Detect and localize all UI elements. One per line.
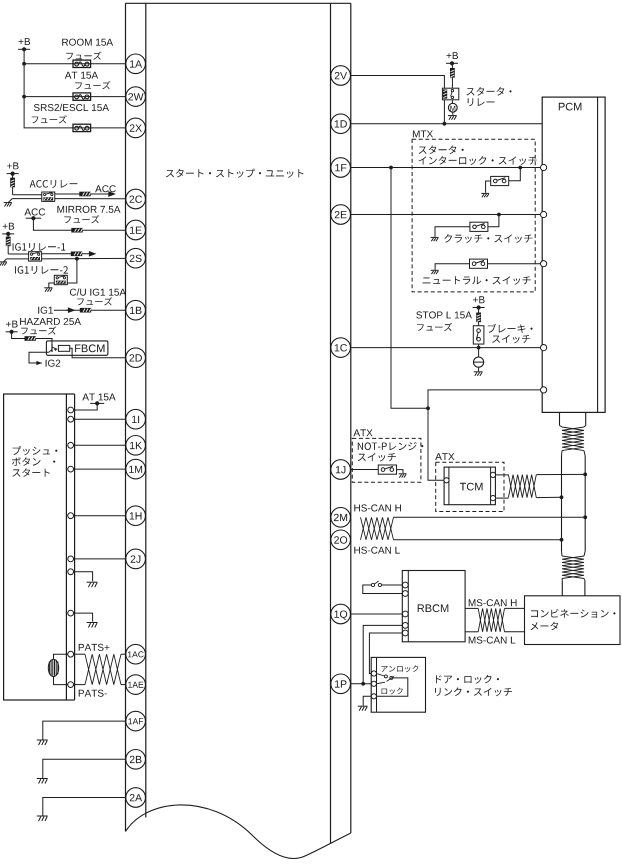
wire brake sw to 1C line [478,344,480,348]
pin 2V [331,66,351,86]
twisted pair HS-CAN [361,517,394,540]
ground (pbs 2) [87,622,98,624]
label starter relay [467,87,512,96]
wire lock loop [377,678,408,696]
label PCM [559,103,582,111]
switch brake (vertical) [473,326,484,344]
module push-button start box [4,394,67,700]
wire pbs ground 1 [74,572,93,582]
ground (clutch) [431,236,439,238]
fuse MIRROR 7.5A [71,228,82,233]
fuse HAZARD 25A [25,336,36,341]
module PCM box [542,97,605,412]
ground connector G [478,348,480,357]
module FBCM box [46,341,108,355]
label MS-CAN L [469,637,516,644]
label lock [382,688,403,695]
PCM pin [541,211,547,217]
wire 1F column to ATX junction [391,168,428,409]
wire AT15A to pin [74,403,98,410]
ground (1AF) [37,739,48,741]
twisted pair TCM CAN [496,474,509,476]
junction (1D/starter) [443,122,447,126]
source ACC [24,208,45,215]
pin 1Q [331,604,351,624]
pin 1C [331,338,351,358]
arrow (IG1) [66,308,74,312]
junction CAN H (TCM) [583,473,587,477]
label RBCM [418,604,449,612]
label start-stop unit [166,169,304,178]
ground (brake) [478,367,480,371]
label push-button start [13,446,58,455]
pin 1B [126,300,146,320]
junction (2E/clutch) [497,213,501,217]
wire 2A to ground [43,798,126,817]
wire pbs to 1M [74,468,126,470]
source AT 15A (to push start) [82,394,115,401]
wire pbs to 1K [74,444,126,446]
ground (door switch) [358,705,368,707]
wire TCM CAN H to bus [536,473,585,475]
wire 1J to switch [350,469,378,471]
resistor (FBCM) [58,345,69,351]
pbs pin (gnd2) [68,610,74,616]
wire pbs to 2J [74,558,126,560]
wire neutral to ground [435,264,469,270]
label combination meter [531,609,616,618]
label ACC (output) [95,185,116,192]
pin 2O [331,530,351,550]
fuse ROOM 15A [73,60,91,67]
label FBCM [75,344,104,352]
twisted pair (PCM to bus) [560,425,586,427]
module RBCM box [402,571,465,642]
pin 2A [126,788,146,808]
pin 2M [331,508,351,528]
junction (brake/1C) [477,346,481,350]
label clutch switch [444,234,532,243]
label AT 15A [65,72,98,79]
pin 1P [331,674,351,694]
wire pbs ground 2 [74,613,93,622]
wire FBCM to IG2 [29,352,49,363]
label SRS2/ESCL 15A [34,104,109,111]
meter connector stub [562,580,585,596]
ATX group (dashed, TCM) [436,462,504,511]
wire relay1 to 2S [42,257,126,260]
RBCM pin [402,611,408,617]
label NOT-P range switch [358,442,424,450]
junction (1F/ATX column) [389,166,393,170]
pbs pin (PATS+) [68,651,74,657]
pbs pin (1K) [68,442,74,448]
label IG1 relay-1 [13,243,66,251]
CAN bus channel [561,456,563,551]
wire door sw to ground [363,696,371,705]
power +B (ACC relay) [7,162,19,169]
transistor (FBCM) [51,343,53,352]
fuse on relay1 output [71,252,82,257]
PCM pin [541,387,547,393]
start-stop unit band (connector strip) [126,2,351,4]
junction HS-CAN H [583,515,587,519]
ATX group (dashed, NOT-P) [352,438,421,482]
label neutral switch [423,276,531,285]
label brake switch [488,324,533,333]
wire relay1 output (arrow) [42,253,90,255]
ground (2B) [37,778,48,780]
label HS-CAN H [354,504,401,511]
wire 1C to PCM [350,347,540,349]
pin 2J [126,549,146,569]
module door-lock-link switch box [371,657,425,712]
wire to 2W [24,96,126,98]
power +B (HAZARD) [6,321,18,328]
label MS-CAN H [469,599,517,606]
pbs pin (PATS-) [68,682,74,688]
module TCM box [444,467,495,505]
pin 1F [331,158,351,178]
wire +B to FBCM [12,332,52,344]
wire relay to ground [12,198,42,200]
TCM pin (CAN H) [490,472,495,477]
power +B (stop lamp) [473,296,485,303]
fuse (vertical) starter [451,63,453,68]
ground (neutral) [431,269,439,271]
pin 2S [126,248,146,268]
wire interlock to ground [486,181,491,193]
wire relay2 to ground [49,283,55,288]
wire ACC to 1E [33,218,125,230]
power +B (starter relay) [447,52,459,59]
pin 1AF [126,711,146,731]
immobilizer antenna coil [54,654,68,659]
wire 2B to ground [43,759,126,778]
switch (RBCM loop) [382,584,403,586]
band bottom break curve [126,805,351,859]
ground (ACC relay) [8,199,12,203]
junction (ATX column) [426,406,430,410]
switch NOT-P range [378,465,396,474]
door sw pin (unlock) [371,671,376,676]
label IG2 [46,360,61,367]
ground (interlock) [481,192,489,194]
label TCM [460,483,483,491]
RBCM pin [402,591,408,597]
arrow IG2 [36,361,42,365]
ground (starter) [452,112,454,115]
label MIRROR 7.5A [57,206,120,213]
wire HS-CAN L to bus [394,539,562,541]
wire 2V to starter relay coil [350,76,444,89]
pin 1J [331,460,351,480]
wire to 1A [24,63,126,65]
source IG1 [38,307,53,314]
wire RBCM to 1P junction [363,625,402,683]
PCM pin [541,164,547,170]
pin 1D [331,114,351,134]
junction CAN L (TCM) [560,495,564,499]
switch starter interlock [491,176,509,185]
pin 2D [126,348,146,368]
TCM pin (in) [444,478,449,483]
door switch contacts [377,674,385,677]
RBCM pin [402,623,408,629]
arrow (IG1 relay-1 out) [89,252,95,256]
fuse STOP L 15A (vertical) [478,308,480,313]
label STOP L 15A fuse [416,311,472,318]
PCM CAN connector stub [560,412,586,425]
switch neutral [470,259,488,268]
label starter interlock switch [419,146,464,155]
relay IG1-2 [54,275,67,284]
twisted pair PATS [74,653,85,655]
label IG1 relay-2 [15,266,68,274]
pin 1H [126,506,146,526]
wire neutral switch to PCM [488,263,541,265]
RBCM pin [402,630,408,636]
ground (2A) [37,815,48,817]
fuse on ACC output [79,192,90,197]
wire junction to PCM pin [428,390,541,408]
wire +B branch vertical [24,49,73,128]
wire pbs to 1H [74,515,126,517]
twisted pair (bus to meter) [562,551,586,556]
junction (1P/RBCM) [361,682,365,686]
wire 1Q to RBCM [350,613,402,615]
relay IG1-1 [29,252,42,261]
door sw pin (lock) [371,694,376,699]
fuse (vertical) on +B [7,234,9,237]
label ATX (TCM) [435,453,454,460]
ground (IG1 relay-1) [7,258,29,260]
label PATS+ [79,644,110,651]
label ATX [353,429,372,436]
fuse SRS2/ESCL 15A [73,124,91,131]
label unlock [381,665,418,672]
fuse (vertical) on +B feed [12,174,14,178]
pbs pin (2J) [68,556,74,562]
wire +B to relay coil [13,194,43,196]
junction at 2W branch [22,95,26,99]
wire 2E to PCM [350,214,540,216]
wire coil to 1D line [443,100,445,124]
pin 1AC [126,644,146,664]
pin 1I [126,409,146,429]
pin 2X [126,118,146,138]
label HS-CAN L [354,547,400,554]
wire relay2 to junction [67,259,77,283]
pin 2B [126,750,146,770]
junction at 1A branch [22,62,26,66]
pin 1E [126,220,146,240]
module combination meter box [525,596,621,645]
wire HS-CAN H to bus [394,516,586,518]
label ACC relay [30,180,78,188]
wire 1P to door switch [350,683,371,685]
wire 1D to PCM [350,123,542,125]
arrow ACC [104,192,114,196]
TCM pin (CAN L) [490,496,495,501]
power +B (top left) [19,38,31,45]
fuse AT 15A [73,93,91,100]
relay ACC [42,192,55,201]
wire to clutch switch [488,215,499,227]
RBCM pin [402,582,408,588]
label C/U IG1 15A fuse [70,288,126,295]
junction (1F/interlock) [518,166,522,170]
wire IG1 to 1B [54,309,126,311]
junction HS-CAN L [560,538,564,542]
ground (pbs 1) [87,581,98,583]
fuse C/U IG1 15A [80,308,91,313]
pbs pin (1M) [68,466,74,472]
ground (NOT-P) [399,473,407,475]
wire pbs to 1I [74,418,126,420]
label HAZARD 25A fuse [20,318,81,325]
MTX group (dashed) [412,139,535,292]
pbs pin (1I) [68,416,74,422]
pin 1A [126,54,146,74]
wire FBCM to 2D [70,348,126,357]
wire clutch to ground [435,227,470,237]
wire to 2X [73,127,126,129]
wire 1AF to ground [43,721,126,740]
wire +B to relay1 [8,253,28,255]
wire to interlock switch [509,168,521,181]
junction 2S/relay2 [75,257,79,261]
pin 2W [126,87,146,107]
ground (IG1 relay-2) [44,287,52,289]
pin 1M [126,459,146,479]
twisted pair MS-CAN [465,607,478,609]
pbs pin (AT15A) [68,407,74,413]
wire relay to 2C [55,198,126,200]
PCM pin [541,261,547,267]
relay starter (box) [442,88,458,100]
label ROOM 15A [62,39,113,46]
pbs pin (gnd1) [68,569,74,575]
pin 2C [126,189,146,209]
wire switch to ground [397,470,403,474]
door sw pin (common) [371,681,376,686]
label MTX [413,131,433,138]
label PATS- [79,690,107,697]
PCM pin [541,345,547,351]
wire ACC output [55,193,104,195]
label door lock link switch [436,675,499,684]
pin 2E [331,205,351,225]
wire RBCM to door unlock [369,633,402,674]
pbs pin (1H) [68,513,74,519]
wire TCM CAN L to bus [536,496,561,498]
switch clutch [470,222,488,231]
pin 1AE [126,675,146,695]
starter motor M [451,100,453,104]
pin 1K [126,436,146,456]
power +B (IG1 relay-1) [3,223,15,230]
wire junction to TCM [428,408,444,480]
wire 1F to PCM [350,167,540,169]
